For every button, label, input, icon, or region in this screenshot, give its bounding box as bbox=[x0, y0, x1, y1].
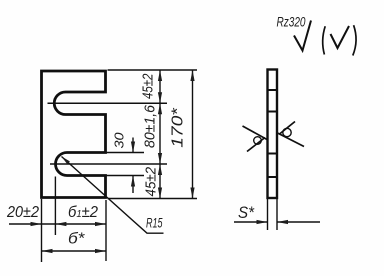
svg-text:45±2: 45±2 bbox=[141, 74, 157, 100]
svg-text:Rz320: Rz320 bbox=[277, 14, 306, 29]
svg-text:30: 30 bbox=[113, 132, 127, 148]
svg-text:45±2: 45±2 bbox=[144, 167, 160, 197]
svg-text:R15: R15 bbox=[146, 215, 163, 231]
svg-text:б1±2: б1±2 bbox=[68, 204, 98, 221]
svg-text:б*: б* bbox=[68, 231, 85, 248]
svg-text:170*: 170* bbox=[169, 107, 186, 147]
svg-text:80±1,6: 80±1,6 bbox=[143, 104, 159, 148]
svg-text:20±2: 20±2 bbox=[6, 204, 39, 221]
svg-text:S*: S* bbox=[238, 203, 255, 222]
